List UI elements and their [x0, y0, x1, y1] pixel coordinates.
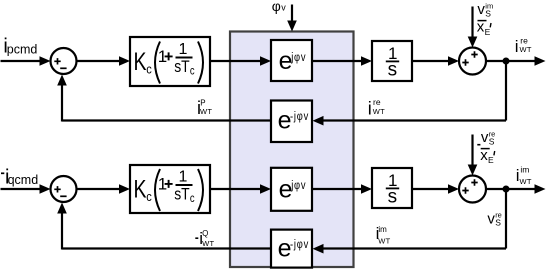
svg-text:φ: φ — [272, 0, 281, 14]
wire S1 to G1 — [77, 56, 131, 66]
node N1 — [503, 58, 510, 65]
wire N1 down to feedback row — [505, 61, 507, 121]
svg-text:e: e — [279, 47, 293, 75]
block E2 exp(-j phi v) — [271, 101, 312, 143]
block E4 exp(-j phi v) — [271, 230, 312, 268]
svg-text:WT: WT — [378, 236, 390, 245]
label iWT_re feedback — [368, 97, 385, 118]
label phi_V — [272, 0, 287, 14]
label iWT_re output — [515, 36, 532, 57]
wire G1 to E1 — [210, 56, 271, 66]
label vS_im over xE' — [477, 1, 493, 37]
wire G2 to E3 — [210, 184, 271, 194]
label iWT_P — [197, 98, 212, 118]
svg-text:x: x — [480, 147, 488, 164]
block E1 exp(j phi v) — [271, 40, 312, 81]
svg-text:S: S — [485, 9, 491, 19]
wire E1 to I1 — [312, 56, 372, 66]
svg-text:e: e — [279, 175, 293, 203]
svg-text:WT: WT — [200, 107, 212, 116]
label iWT_im output — [516, 165, 532, 187]
wire E4 to S3 feedback — [57, 203, 271, 250]
svg-text:E: E — [485, 27, 491, 37]
svg-text:K: K — [134, 175, 147, 203]
svg-text:-jφv: -jφv — [290, 110, 309, 123]
svg-text:Q: Q — [202, 229, 208, 238]
svg-text:S: S — [489, 137, 495, 147]
svg-text:S: S — [495, 217, 501, 227]
wire E3 to I2 — [312, 184, 372, 194]
node N2 — [503, 186, 510, 193]
block E3 exp(j phi v) — [271, 168, 312, 211]
svg-text:v: v — [477, 1, 485, 18]
svg-text:qcmd: qcmd — [8, 173, 39, 187]
wire vS_re input arrow into S4 — [468, 135, 478, 176]
wire phi_V input arrow — [287, 5, 297, 32]
label vS_re at node N2 — [487, 210, 501, 227]
wire input ipcmd — [1, 56, 51, 66]
summing junction S2 — [459, 48, 486, 75]
summing junction S4 — [459, 176, 486, 203]
wire I1 to S2 — [412, 56, 459, 66]
svg-text:v: v — [487, 211, 495, 228]
svg-text:c: c — [146, 62, 152, 77]
label -vS_re over xE' — [477, 129, 495, 165]
wire N2 down to feedback row — [505, 189, 507, 249]
wire feedback into E2 — [313, 116, 507, 126]
svg-text:c: c — [190, 65, 195, 78]
svg-text:c: c — [146, 189, 152, 204]
wire I2 to S4 — [412, 184, 459, 194]
svg-text:im: im — [520, 165, 529, 175]
svg-text:x: x — [477, 19, 485, 36]
label -iqcmd — [1, 166, 38, 188]
svg-text:WT: WT — [373, 107, 385, 116]
svg-text:re: re — [373, 97, 381, 107]
label ipcmd — [3, 36, 37, 58]
svg-text:s: s — [388, 60, 398, 81]
svg-text:-jφv: -jφv — [290, 238, 309, 251]
wire S3 to G2 — [77, 184, 131, 194]
svg-text:re: re — [520, 36, 528, 46]
svg-text:WT: WT — [202, 239, 214, 248]
block G2 Kc(1+1/sTc) — [130, 165, 210, 213]
wire S2 to output iWT_re — [486, 56, 546, 66]
svg-text:jφv: jφv — [290, 179, 306, 192]
svg-text:sT: sT — [174, 58, 190, 77]
svg-text:v: v — [481, 129, 489, 146]
svg-text:i: i — [368, 98, 372, 118]
svg-text:1: 1 — [179, 169, 188, 186]
svg-text:v: v — [281, 3, 286, 13]
svg-text:s: s — [388, 187, 398, 208]
wire S4 to output iWT_im — [486, 184, 546, 194]
block I2 integrator 1/s — [372, 168, 412, 208]
svg-text:im: im — [378, 225, 387, 234]
block I1 integrator 1/s — [372, 41, 412, 81]
wire vS_im input arrow into S2 — [468, 7, 478, 48]
block G1 Kc(1+1/sTc) — [130, 37, 210, 86]
svg-text:jφv: jφv — [290, 51, 306, 64]
svg-text:1: 1 — [179, 41, 188, 58]
svg-text:sT: sT — [174, 185, 190, 204]
svg-text:pcmd: pcmd — [7, 43, 38, 57]
svg-text:WT: WT — [520, 45, 532, 54]
svg-text:WT: WT — [520, 177, 532, 186]
svg-text:c: c — [190, 192, 195, 205]
wire E2 to S1 feedback — [57, 75, 271, 122]
summing junction S1 — [51, 48, 77, 74]
label iWT_im feedback — [376, 224, 391, 245]
label -iWT_Q — [195, 229, 214, 248]
svg-text:E: E — [488, 155, 494, 165]
transform frame (shaded rotation region) — [230, 32, 354, 268]
svg-text:i: i — [515, 37, 519, 56]
svg-text:K: K — [134, 48, 147, 76]
summing junction S3 — [51, 176, 77, 202]
wire feedback into E4 — [313, 244, 507, 254]
wire input -iqcmd — [1, 184, 51, 194]
